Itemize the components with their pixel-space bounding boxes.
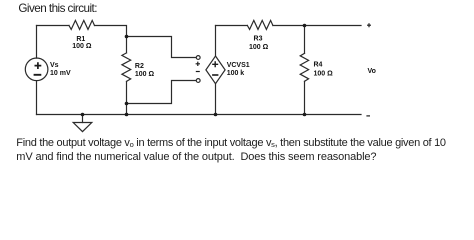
sense minus sign (196, 71, 200, 73)
svg-text:100 Ω: 100 Ω (72, 43, 92, 50)
wire VCVS top (215, 26, 217, 57)
svg-text:100 Ω: 100 Ω (314, 70, 334, 77)
wire bottom rail (37, 114, 362, 116)
svg-text:VCVS1: VCVS1 (227, 62, 250, 69)
wire R2 to node B (126, 81, 128, 103)
resistor R2 (122, 53, 131, 82)
op-amp VCVS1 dependent source body (206, 56, 225, 84)
resistor R3 (247, 20, 273, 29)
VCVS minus sign (212, 74, 218, 76)
wire VCVS to bottom rail (215, 84, 217, 115)
junction dot VCVS bottom rail (214, 113, 218, 117)
title text (18, 3, 97, 15)
VCVS plus sign (212, 61, 218, 67)
wire R3 to node C (273, 25, 304, 27)
wire R4 to bottom rail (304, 81, 306, 114)
voltage source Vs (25, 58, 48, 81)
svg-text:R3: R3 (254, 35, 263, 42)
junction dot R4 bottom rail (303, 113, 307, 117)
svg-text:10 mV: 10 mV (50, 70, 71, 77)
wire top-right VCVS to R3 (216, 25, 248, 27)
svg-text:Vs: Vs (50, 62, 59, 69)
resistor R1 (69, 20, 95, 29)
svg-text:100 Ω: 100 Ω (249, 44, 269, 51)
wire node C down to R4 (304, 26, 306, 54)
output minus sign (366, 115, 370, 117)
terminal bottom sense (196, 79, 200, 83)
resistor R4 (300, 53, 308, 81)
junction dot R2 bottom rail (125, 113, 129, 117)
Vs minus sign (34, 74, 42, 76)
wire node A down to R2 (126, 37, 128, 53)
svg-text:R4: R4 (314, 62, 323, 69)
ground (82, 115, 84, 123)
question text (16, 136, 474, 164)
wire top-left from Vs to R1 (37, 25, 70, 27)
wire sense top from node A to terminal (127, 37, 197, 58)
svg-text:R2: R2 (135, 63, 144, 70)
terminal top sense (196, 56, 200, 60)
Vs plus sign (35, 62, 42, 69)
svg-text:100 Ω: 100 Ω (135, 71, 155, 78)
node A junction dot (125, 35, 129, 39)
output plus sign (367, 23, 371, 27)
wire sense bottom from terminal to node B (127, 81, 197, 104)
wire left vertical above Vs (36, 26, 38, 59)
node B junction dot (125, 102, 129, 106)
svg-text:R1: R1 (76, 36, 85, 43)
node C junction dot (303, 24, 307, 28)
wire node B to bottom rail (126, 104, 128, 115)
wire Vs to bottom rail (36, 81, 38, 115)
svg-text:100 k: 100 k (227, 70, 245, 77)
wire node C to output (305, 25, 362, 27)
junction dot ground rail (81, 113, 85, 117)
sense plus sign (196, 62, 200, 66)
svg-text:Vo: Vo (368, 68, 376, 75)
wire R1 to node A (95, 26, 127, 37)
